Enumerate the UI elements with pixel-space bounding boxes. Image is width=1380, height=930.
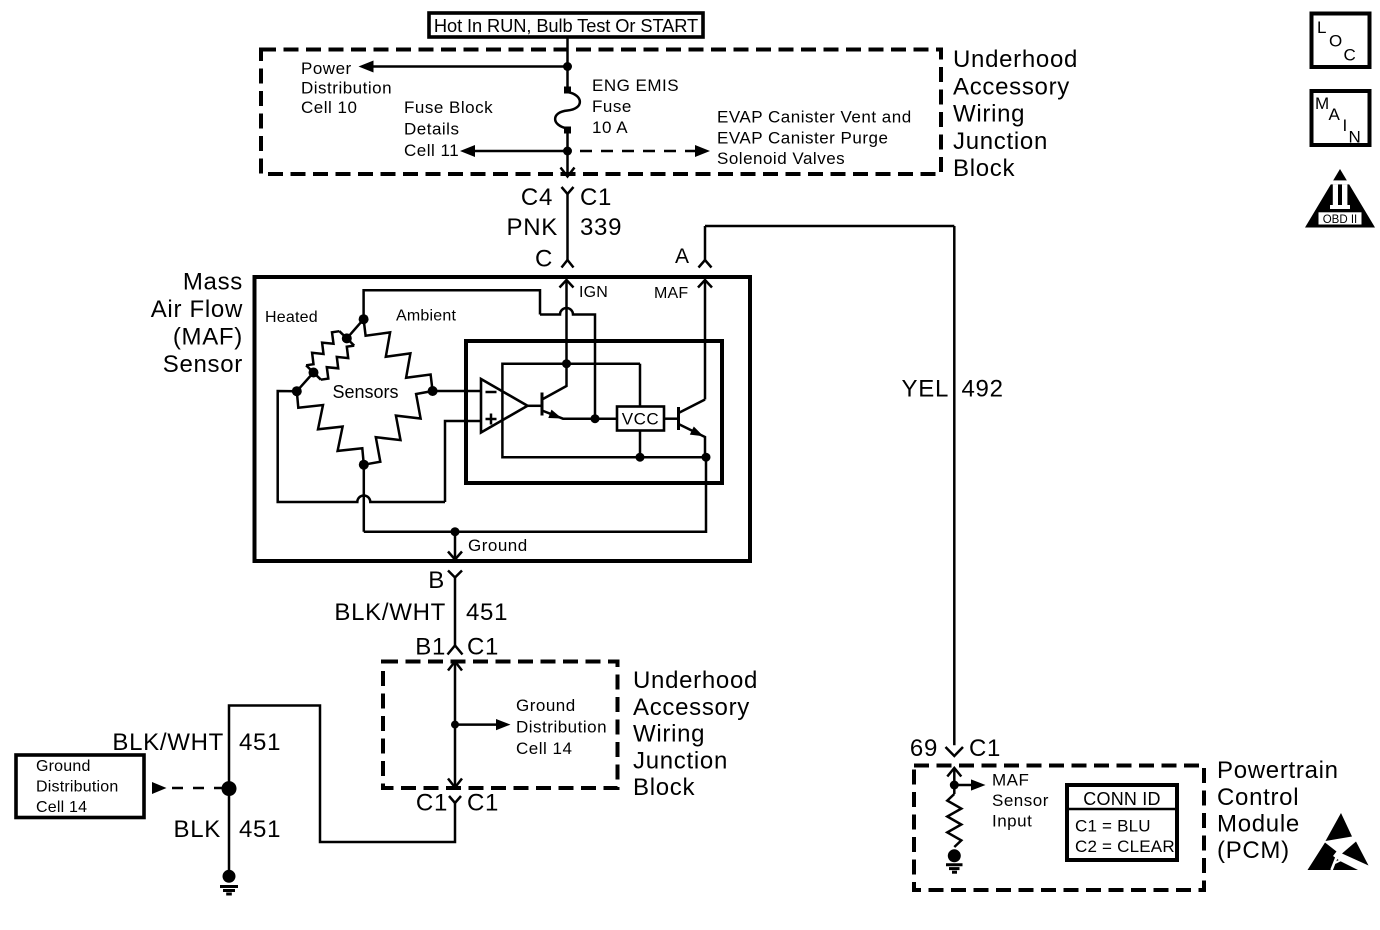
svg-text:Fuse: Fuse xyxy=(592,97,632,116)
svg-text:EVAP Canister Purge: EVAP Canister Purge xyxy=(717,129,888,148)
svg-text:(MAF): (MAF) xyxy=(173,323,243,350)
svg-text:YEL: YEL xyxy=(902,376,949,403)
svg-text:Sensor: Sensor xyxy=(163,351,243,378)
svg-text:C1 = BLU: C1 = BLU xyxy=(1075,817,1151,836)
svg-text:Power: Power xyxy=(301,59,352,78)
svg-text:492: 492 xyxy=(962,376,1004,403)
svg-text:Module: Module xyxy=(1217,811,1300,838)
svg-text:Distribution: Distribution xyxy=(301,79,392,98)
svg-text:Block: Block xyxy=(633,774,695,801)
svg-text:339: 339 xyxy=(580,214,622,241)
svg-text:Ground: Ground xyxy=(36,758,91,775)
svg-text:IGN: IGN xyxy=(579,284,608,301)
svg-text:C1: C1 xyxy=(969,735,1001,762)
svg-text:M: M xyxy=(1315,94,1330,113)
svg-text:Ground: Ground xyxy=(516,696,576,715)
svg-text:C: C xyxy=(535,246,553,273)
svg-text:69: 69 xyxy=(910,735,938,762)
svg-text:Junction: Junction xyxy=(953,128,1048,155)
svg-text:Ground: Ground xyxy=(468,536,528,555)
svg-text:C2 = CLEAR: C2 = CLEAR xyxy=(1075,837,1175,856)
svg-text:C1: C1 xyxy=(580,184,612,211)
svg-text:Mass: Mass xyxy=(183,269,243,296)
svg-text:C4: C4 xyxy=(521,184,553,211)
svg-text:L: L xyxy=(1317,18,1327,37)
svg-text:Underhood: Underhood xyxy=(953,46,1078,73)
svg-text:C1: C1 xyxy=(416,790,448,817)
svg-text:Hot In RUN, Bulb Test Or START: Hot In RUN, Bulb Test Or START xyxy=(434,15,698,36)
svg-text:Solenoid Valves: Solenoid Valves xyxy=(717,149,845,168)
svg-text:C: C xyxy=(1344,46,1357,65)
svg-text:MAF: MAF xyxy=(654,285,688,302)
svg-text:A: A xyxy=(675,245,689,268)
svg-text:Input: Input xyxy=(992,812,1032,831)
svg-text:Heated: Heated xyxy=(265,309,318,326)
svg-text:Accessory: Accessory xyxy=(633,694,750,721)
svg-text:I: I xyxy=(1343,116,1348,135)
svg-text:C1: C1 xyxy=(467,790,499,817)
svg-text:Wiring: Wiring xyxy=(633,721,705,748)
svg-text:N: N xyxy=(1349,128,1362,147)
svg-text:BLK/WHT: BLK/WHT xyxy=(334,599,446,626)
svg-text:Accessory: Accessory xyxy=(953,73,1070,100)
svg-text:Fuse Block: Fuse Block xyxy=(404,98,493,117)
svg-text:BLK: BLK xyxy=(174,816,221,843)
svg-text:A: A xyxy=(1329,105,1341,124)
svg-text:451: 451 xyxy=(239,729,281,756)
svg-text:MAF: MAF xyxy=(992,771,1029,790)
svg-text:EVAP Canister Vent and: EVAP Canister Vent and xyxy=(717,108,912,127)
svg-text:C1: C1 xyxy=(467,634,499,661)
svg-text:Cell 14: Cell 14 xyxy=(516,739,572,758)
svg-text:OBD II: OBD II xyxy=(1323,214,1358,226)
svg-text:CONN ID: CONN ID xyxy=(1083,789,1160,809)
svg-text:BLK/WHT: BLK/WHT xyxy=(112,729,224,756)
svg-text:(PCM): (PCM) xyxy=(1217,837,1290,864)
svg-text:Block: Block xyxy=(953,155,1015,182)
svg-text:451: 451 xyxy=(466,599,508,626)
svg-text:Junction: Junction xyxy=(633,747,728,774)
svg-text:Cell 10: Cell 10 xyxy=(301,98,357,117)
svg-text:Ambient: Ambient xyxy=(396,308,456,325)
svg-text:10 A: 10 A xyxy=(592,118,628,137)
svg-text:PNK: PNK xyxy=(507,214,558,241)
svg-text:O: O xyxy=(1329,32,1343,51)
svg-text:Sensor: Sensor xyxy=(992,791,1049,810)
svg-text:Air Flow: Air Flow xyxy=(151,296,243,323)
svg-text:ENG EMIS: ENG EMIS xyxy=(592,76,679,95)
svg-text:Control: Control xyxy=(1217,784,1299,811)
svg-text:VCC: VCC xyxy=(622,410,659,429)
svg-text:Underhood: Underhood xyxy=(633,667,758,694)
svg-text:B: B xyxy=(428,567,445,594)
svg-text:Cell 11: Cell 11 xyxy=(404,141,459,160)
svg-text:Powertrain: Powertrain xyxy=(1217,757,1339,784)
svg-text:Wiring: Wiring xyxy=(953,101,1025,128)
svg-text:451: 451 xyxy=(239,816,281,843)
svg-text:Sensors: Sensors xyxy=(333,382,399,402)
svg-text:Distribution: Distribution xyxy=(36,779,118,796)
svg-text:Details: Details xyxy=(404,120,459,139)
svg-text:B1: B1 xyxy=(415,634,446,661)
svg-text:Distribution: Distribution xyxy=(516,717,607,736)
svg-text:Cell 14: Cell 14 xyxy=(36,799,87,816)
